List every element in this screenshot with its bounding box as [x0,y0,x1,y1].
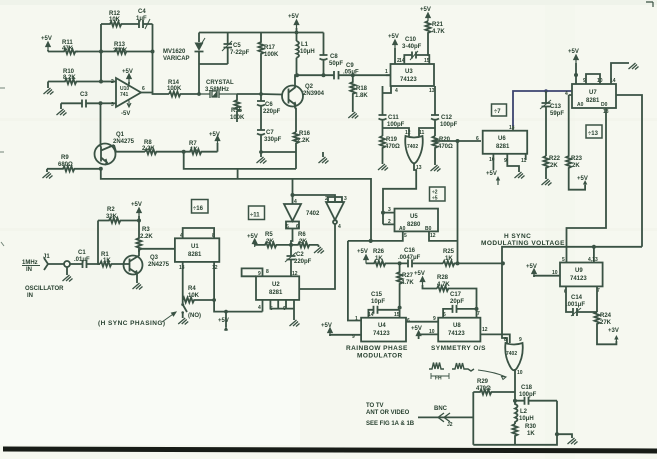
wire C9 into U3 pin 1 [385,69,391,75]
svg-text:IN: IN [27,293,33,299]
svg-text:6: 6 [296,224,299,230]
svg-text:50pF: 50pF [329,61,343,67]
svg-text:BNC: BNC [434,406,448,412]
NOR gate 7402 first [405,130,425,171]
svg-text:ANT OR VIDEO: ANT OR VIDEO [366,410,410,416]
resistor R17 [259,33,280,95]
resistor R2 [98,207,139,223]
wire gate A to gate B inputs [293,195,336,201]
label RAINBOW PHASE MODULATOR [346,345,408,360]
ground after R6 [314,245,324,254]
ground under C7 [257,152,267,164]
wire emitter bus down and east [101,169,371,241]
svg-text:+5V: +5V [526,264,537,270]
svg-text:R29: R29 [477,379,489,385]
svg-text:R24: R24 [600,313,612,319]
node ground branch junction [555,432,559,436]
svg-text:3: 3 [111,102,114,108]
node C15/R27 junction [398,306,402,310]
wire jog junction [237,169,239,179]
svg-text:.0047μF: .0047μF [398,255,421,261]
node C17/R28 junction [475,307,479,311]
svg-text:U7: U7 [589,90,597,96]
wire U1 top pins bracket [183,228,214,238]
svg-text:+5V: +5V [288,14,299,20]
svg-text:15: 15 [424,58,430,64]
resistor R6 [291,232,319,247]
svg-text:8281: 8281 [188,252,202,258]
IC U9 74123 [560,257,603,295]
ground under J1 [63,267,73,282]
svg-text:3-40pF: 3-40pF [402,44,422,50]
svg-text:10: 10 [429,329,435,335]
node gate A input junction [291,193,295,197]
svg-text:13: 13 [429,88,435,94]
svg-text:R5: R5 [265,232,273,238]
svg-text:R2: R2 [107,207,115,213]
+5V supply for R11 [41,36,52,52]
svg-text:8281: 8281 [269,290,283,296]
wire varicap to C5 bottom [199,63,228,65]
transistor Q2 2N3904 [282,84,325,109]
capacitor C18 [515,385,557,405]
svg-text:10pF: 10pF [371,299,385,305]
svg-text:L1: L1 [301,42,309,48]
wire U2 bottom pins loop [270,300,286,309]
wire U5 pin B0 down east [429,231,458,241]
+5V supply on U2 bus [218,310,229,331]
wire U7 D0 down to U9 [567,108,609,263]
svg-text:L2: L2 [520,409,528,415]
wire node A down to op-amp pin 2 [100,52,102,82]
svg-text:1μF: 1μF [136,16,147,22]
svg-text:C6: C6 [265,102,273,108]
wire U1 pin 12 down to bus [214,262,262,312]
ground under U6 [507,154,524,179]
svg-text:13: 13 [509,125,515,131]
svg-text:220pF: 220pF [263,109,281,115]
capacitor C17 [443,292,480,318]
capacitor C16 [398,248,443,267]
node gate A output junction [289,243,293,247]
svg-text:CRYSTAL: CRYSTAL [206,80,234,86]
label H SYNC MODULATING VOLTAGE [481,233,565,247]
svg-text:÷5: ÷5 [432,196,438,202]
wire feedback node down to R13 output [152,24,154,93]
svg-text:+5V: +5V [568,49,579,55]
resistor R22 [544,156,561,179]
wire varicap node down to crystal line [198,64,200,94]
node R27 junction [398,261,402,265]
svg-text:C3: C3 [80,92,88,98]
svg-text:C4: C4 [138,9,146,15]
ground under R9 [43,169,53,179]
ground under U2 [286,300,300,327]
+5V supply for U9 pin 10 [526,264,560,277]
+5V supply for R5 [247,234,258,247]
wire to output ground [557,434,572,438]
divider box /11 [249,206,265,220]
svg-text:74123: 74123 [373,331,390,337]
svg-text:7-22pF: 7-22pF [230,50,250,56]
svg-text:C15: C15 [371,292,383,298]
resistor R21 [426,21,446,55]
label TO TV ANT OR VIDEO [366,403,415,427]
+5V supply for L1 [288,14,299,33]
+5V supply for R24 [608,328,619,341]
op-amp U10 741 [111,78,145,108]
svg-text:10: 10 [552,270,558,276]
svg-text:+5V: +5V [486,171,497,177]
ground stub right of R16 [319,152,329,164]
wire Q1 base from C3 node [100,103,102,147]
svg-text:R17: R17 [264,45,276,51]
svg-text:3: 3 [344,196,347,202]
svg-text:C14: C14 [571,295,583,301]
ground right of U7 [629,63,639,70]
capacitor C3 [61,92,101,108]
node switch bus junction [212,298,216,302]
svg-text:74123: 74123 [448,331,465,337]
wire U7 pin 14 to ground [611,63,629,84]
ground under R19 [378,164,388,171]
svg-text:D0: D0 [601,102,608,108]
wire U5 left pins bracket [383,213,395,225]
capacitor C12 [431,115,458,136]
svg-text:C11: C11 [388,115,399,121]
node +5V bus junction [295,31,299,35]
svg-text:8: 8 [504,337,507,343]
left edge smudge [0,88,5,246]
+5V supply for R21 [420,7,431,21]
svg-text:+5V: +5V [131,202,142,208]
svg-text:9: 9 [258,271,261,277]
wire U6 pin 11 stub down [525,154,527,160]
ground under switch [178,318,188,325]
capacitor C11 [379,115,405,136]
wire U5 pin A0 down to bus [348,231,407,241]
svg-text:Q3: Q3 [150,255,159,261]
svg-text:C18: C18 [521,385,533,391]
svg-text:5: 5 [404,233,407,239]
svg-text:8280: 8280 [407,222,421,228]
svg-text:R26: R26 [373,249,385,255]
inductor L2 [515,401,534,424]
capacitor C14 [566,286,597,316]
node C18 junction [513,399,517,403]
svg-text:VARICAP: VARICAP [163,56,190,62]
svg-text:TO TV: TO TV [366,403,384,409]
svg-text:Q2: Q2 [305,84,314,90]
NOR gate 7402 second [504,337,523,376]
resistor R19 [380,136,400,164]
+5V supply for U7 [568,49,579,84]
svg-text:2.2K: 2.2K [140,234,153,240]
svg-text:R6: R6 [298,232,306,238]
ground under C3 [57,103,67,115]
resistor R26 [366,249,400,266]
resistor R3 [137,221,154,253]
svg-text:C12: C12 [441,115,453,121]
svg-text:+3V: +3V [608,328,619,334]
svg-text:8281: 8281 [496,144,510,150]
svg-text:R21: R21 [432,22,444,28]
svg-text:R20: R20 [439,137,451,143]
svg-text:+5V: +5V [122,69,133,75]
wire C7 node to R16 bottom [261,151,296,153]
wire Q3 collector to U1 [139,249,175,252]
svg-text:2: 2 [111,79,114,85]
IC U6 8281 [476,125,527,164]
+5V supply for R23 [577,176,588,185]
wire gate B output down to U2 pin 12 [300,224,335,289]
divider box /7 [492,104,507,116]
wire C11 line into gate input 12 [383,128,410,136]
node Q2 collector junction [295,73,299,77]
svg-text:U6: U6 [498,136,506,142]
svg-text:A0: A0 [577,102,584,108]
wire U2 top-left pins bracket [242,268,263,276]
IC U8 74123 [433,316,488,342]
svg-text:MV1620: MV1620 [163,49,186,55]
node R18 junction [351,73,355,77]
divider box /13 [586,125,602,138]
svg-text:(H SYNC PHASING): (H SYNC PHASING) [98,320,166,327]
resistor R28 [437,275,477,309]
wire U8 pin 12 to gate input [480,334,509,343]
svg-text:IN: IN [26,267,32,273]
capacitor C13 variable [540,91,564,156]
svg-text:B0: B0 [425,226,432,232]
wire C12 line into gate input 11 [419,128,435,136]
svg-text:2N4275: 2N4275 [113,139,135,145]
svg-text:9: 9 [433,316,436,322]
svg-text:4,13: 4,13 [588,257,598,263]
+5V supply for R26 [357,249,368,263]
svg-text:U3: U3 [405,69,413,75]
svg-text:+5V: +5V [209,132,220,138]
wire U1 pin 13 down to switch [182,262,184,303]
svg-text:R18: R18 [356,86,368,92]
svg-text:RAINBOW PHASE: RAINBOW PHASE [346,345,408,352]
svg-text:R30: R30 [525,424,537,430]
svg-text:C2: C2 [296,252,304,258]
svg-text:U8: U8 [453,323,461,329]
resistor R23 [566,95,585,190]
svg-text:10K: 10K [188,293,200,299]
resistor R13 [101,42,153,54]
waveform sketch [429,363,474,372]
resistor R15 [230,94,245,122]
wire Q2 collector up [295,75,297,83]
blue node C13 junction [544,89,547,92]
+5V supply under U6 [486,154,500,185]
capacitor C15 [368,292,400,318]
divider box /2 /5 [430,187,446,202]
capacitor C9 [334,63,391,79]
inductor L1 [297,33,315,76]
wire Q1 collector to R8 [116,151,145,153]
resistor R14 [167,80,199,97]
svg-text:330pF: 330pF [264,137,282,143]
node R8/R7 junction [182,150,186,154]
op-amp +5V supply [122,69,133,85]
svg-text:5: 5 [562,257,565,263]
svg-text:R3: R3 [142,227,150,233]
svg-text:SYMMETRY O/S: SYMMETRY O/S [431,345,486,352]
svg-text:5: 5 [286,224,289,230]
svg-text:4.7K: 4.7K [432,29,445,35]
resistor R24 [595,286,617,344]
svg-text:+5V: +5V [388,34,399,40]
svg-text:2K: 2K [550,163,558,169]
svg-text:U5: U5 [410,214,418,220]
svg-text:100pF: 100pF [440,122,458,128]
divider box /16 [192,200,209,214]
svg-text:2K: 2K [572,163,580,169]
svg-text:20pF: 20pF [450,299,464,305]
svg-text:C7: C7 [266,130,274,136]
svg-text:470Ω: 470Ω [438,144,453,150]
wire U3 pin 13 branch to U6 [435,140,481,142]
svg-text:6: 6 [476,136,479,142]
resistor R4 [183,286,214,303]
wire bus down to U4 pin 1 [348,241,361,321]
svg-text:U9: U9 [575,268,583,274]
ground under R10 [44,82,54,95]
svg-text:+5V: +5V [41,36,52,42]
bottom scan bar [3,447,657,454]
svg-text:MODULATOR: MODULATOR [357,353,403,360]
node Q1 emitter junction [99,167,103,171]
svg-text:-5V: -5V [121,111,130,117]
ground under R18 [348,112,358,119]
capacitor C4 [122,9,153,29]
IC U3 74123 [391,64,435,86]
svg-text:+5V: +5V [414,271,425,277]
svg-text:R16: R16 [299,131,311,137]
svg-text:4: 4 [294,199,297,205]
svg-text:Q1: Q1 [116,132,125,138]
svg-text:FH: FH [435,376,442,382]
svg-text:+5V: +5V [411,326,422,332]
blue wire U6 to U7 [513,91,572,126]
svg-text:1.8K: 1.8K [355,93,368,99]
svg-text:6: 6 [142,86,145,92]
resistor R1 [100,252,124,267]
svg-text:J2: J2 [447,422,453,428]
svg-text:C8: C8 [330,54,338,60]
svg-text:741: 741 [120,92,129,98]
wire junction down to R25 line [457,141,459,263]
svg-text:.001μF: .001μF [566,302,585,308]
svg-text:59pF: 59pF [550,111,564,117]
wire node B to op-amp inverting input [101,81,116,83]
node C7 ground junction [259,150,263,154]
wire junction down to U9 [593,247,595,263]
svg-text:SEE FIG 1A & 1B: SEE FIG 1A & 1B [366,421,415,427]
svg-text:R28: R28 [437,275,449,281]
wire gate A output down [291,229,293,245]
node U5 bracket junction [381,211,385,215]
+5V supply for U8 pin 10 [411,326,438,339]
svg-text:12: 12 [430,233,436,239]
resistor R18 [350,75,368,112]
BNC connector J2 [418,406,473,428]
op-amp -5V supply [121,101,131,118]
svg-text:+5V: +5V [218,318,229,324]
svg-text:OSCILLATOR: OSCILLATOR [25,286,64,292]
wire gate 2 output down [514,370,515,401]
svg-text:1: 1 [385,69,388,75]
svg-text:U4: U4 [378,323,386,329]
IC U4 74123 [352,316,410,342]
+5V supply for R7 [209,132,220,152]
svg-text:C10: C10 [405,37,417,43]
svg-text:2N4275: 2N4275 [148,262,170,268]
capacitor C8 [320,33,344,76]
transistor Q1 2N4275 [95,132,135,165]
node R17/C6 junction [259,92,263,96]
node H-sync line junction [501,261,505,265]
capacitor C1 [74,250,100,268]
resistor R12 [101,11,122,27]
svg-text:220pF: 220pF [294,259,312,265]
svg-text:8281: 8281 [586,98,600,104]
svg-text:10μH: 10μH [519,416,534,422]
svg-text:4: 4 [395,88,398,94]
wire gate output down to U5 latch [383,163,416,213]
svg-text:C13: C13 [550,104,562,110]
svg-text:(NO): (NO) [188,313,201,319]
+5V supply for U3 pin 2 [388,34,400,64]
svg-text:A0: A0 [399,226,406,232]
wire U4 Q to U8 [406,321,438,323]
svg-text:1: 1 [355,316,358,322]
resistor R29 [473,379,515,395]
label OSCILLATOR IN [25,286,64,299]
resistor R16 [294,131,311,169]
resistor R11 [48,40,78,54]
resistor R10 [48,69,101,84]
svg-text:470Ω: 470Ω [385,144,400,150]
svg-text:C5: C5 [233,43,241,49]
resistor R7 [184,141,218,154]
node C3/base junction [99,101,103,105]
node U5 feed junction [456,139,460,143]
capacitor C7 [257,130,282,152]
svg-text:12: 12 [405,130,411,136]
+5V supply for R28 [414,271,437,289]
wire U7 output east then south [616,95,642,247]
ground at output [568,438,578,445]
svg-text:4: 4 [338,224,341,230]
varicap D1 MV1620 [163,33,205,65]
svg-text:7: 7 [477,311,480,317]
svg-text:C1: C1 [78,250,86,256]
wire R11 to node A [76,51,101,53]
svg-text:U2: U2 [272,282,280,288]
svg-text:÷7: ÷7 [494,109,501,115]
svg-text:H SYNC: H SYNC [504,233,531,240]
transistor Q3 2N4275 [124,252,170,277]
wire C3 node to op-amp non-inverting input [101,102,117,104]
svg-text:12: 12 [292,271,298,277]
capacitor C6 [257,94,281,130]
resistor R9 [47,155,101,171]
wire op-amp output to R14 [141,93,169,95]
wire U7 pins 9-10 bracket [586,74,600,84]
